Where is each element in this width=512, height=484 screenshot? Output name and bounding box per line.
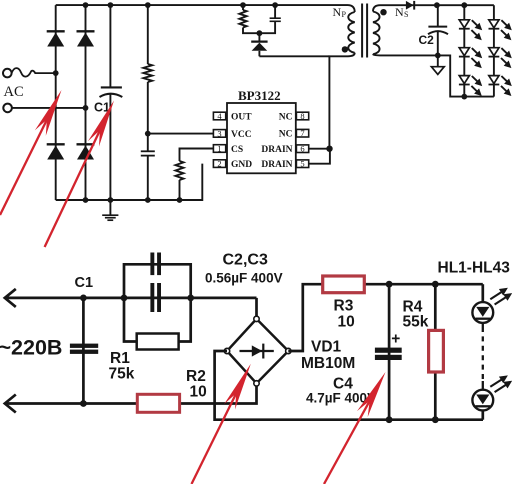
svg-text:R2: R2 bbox=[186, 368, 206, 385]
svg-text:OUT: OUT bbox=[231, 112, 252, 122]
svg-text:NC: NC bbox=[279, 130, 293, 140]
svg-text:HL1-HL43: HL1-HL43 bbox=[438, 259, 511, 276]
svg-text:75k: 75k bbox=[109, 366, 135, 383]
svg-text:~220B: ~220B bbox=[0, 335, 62, 359]
svg-text:+: + bbox=[391, 331, 400, 348]
svg-text:N: N bbox=[395, 5, 404, 19]
svg-text:6: 6 bbox=[300, 144, 304, 154]
svg-text:1: 1 bbox=[217, 143, 221, 153]
svg-text:S: S bbox=[404, 10, 408, 19]
svg-text:3: 3 bbox=[217, 128, 221, 138]
svg-text:55k: 55k bbox=[403, 313, 429, 330]
svg-text:N: N bbox=[333, 5, 342, 19]
svg-text:C2: C2 bbox=[419, 33, 435, 47]
svg-text:CS: CS bbox=[231, 145, 243, 155]
svg-text:GND: GND bbox=[231, 160, 252, 170]
svg-text:10: 10 bbox=[338, 313, 355, 330]
svg-text:C1: C1 bbox=[75, 275, 94, 291]
svg-text:DRAIN: DRAIN bbox=[261, 145, 292, 155]
svg-text:10: 10 bbox=[190, 384, 207, 401]
svg-text:AC: AC bbox=[4, 84, 24, 100]
svg-text:DRAIN: DRAIN bbox=[261, 160, 292, 170]
svg-text:2: 2 bbox=[217, 159, 221, 169]
svg-text:7: 7 bbox=[300, 128, 304, 138]
svg-text:NC: NC bbox=[279, 112, 293, 122]
svg-text:0.56µF 400V: 0.56µF 400V bbox=[205, 270, 283, 285]
svg-text:R1: R1 bbox=[110, 350, 130, 367]
svg-text:MB10M: MB10M bbox=[301, 355, 355, 372]
svg-text:5: 5 bbox=[300, 159, 304, 169]
svg-text:R3: R3 bbox=[334, 297, 354, 314]
svg-text:VCC: VCC bbox=[231, 130, 252, 140]
svg-text:8: 8 bbox=[300, 111, 304, 121]
svg-text:C2,C3: C2,C3 bbox=[223, 252, 268, 269]
svg-text:BP3122: BP3122 bbox=[238, 88, 281, 103]
svg-text:VD1: VD1 bbox=[311, 339, 342, 356]
svg-text:P: P bbox=[342, 10, 347, 19]
